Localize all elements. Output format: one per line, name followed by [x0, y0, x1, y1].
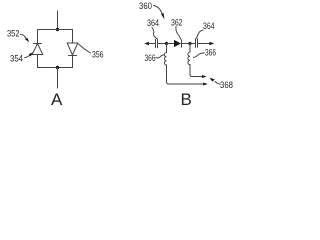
port arrow: figure B right output [209, 42, 214, 45]
port arrow: lower output [203, 83, 208, 86]
label 352 leader arrow [21, 34, 30, 42]
svg-text:352: 352 [7, 28, 20, 39]
wire: figure A top rail [38, 29, 73, 31]
wire: figure A right leg upper [72, 30, 74, 44]
capacitor 364 (left) [156, 39, 158, 47]
port arrow: upper output [202, 75, 207, 78]
label 364 left leader [152, 28, 157, 39]
wire: figure A bottom rail [38, 67, 73, 69]
svg-text:366: 366 [205, 47, 216, 58]
label 356 leader line [79, 44, 91, 53]
label 360 leader arrow [154, 6, 165, 20]
svg-text:366: 366 [145, 52, 156, 63]
label 364 right leader [196, 30, 203, 38]
wire: figure A bottom stub [57, 68, 59, 89]
node: B right junction dot [188, 42, 191, 45]
wire: figure A left leg upper [37, 30, 39, 44]
wire: cap2 to output [198, 43, 211, 45]
node: B left junction dot [165, 42, 168, 45]
port arrow: figure B left input [144, 42, 149, 45]
svg-text:B: B [181, 90, 192, 109]
diode 362 (solid, pointing right) [174, 40, 182, 47]
label 366 left leader [156, 55, 164, 58]
svg-text:364: 364 [203, 20, 215, 31]
wire: right inductor to upper output port [190, 75, 203, 77]
label 366 right leader [193, 53, 204, 58]
wire: B input to cap1 [149, 43, 156, 45]
label 362 leader [176, 27, 181, 40]
inductor 366 (left) [164, 44, 166, 83]
inductor 366 (right) [188, 44, 190, 75]
node: figure A bottom junction dot [56, 66, 59, 69]
wire: cap1 to node [158, 43, 167, 45]
svg-text:360: 360 [139, 0, 152, 11]
wire: figure A top stub [57, 11, 59, 30]
svg-text:364: 364 [147, 17, 159, 28]
diode 356 (right, triangle pointing down, cathode bar at bottom) [67, 43, 78, 56]
node: figure A top junction dot [56, 28, 59, 31]
capacitor 364 (right) [196, 39, 198, 47]
wire: left inductor to lower output port [167, 82, 205, 84]
svg-text:362: 362 [171, 17, 183, 28]
wire: node to cap2 [190, 43, 195, 45]
svg-text:356: 356 [92, 49, 104, 60]
svg-text:A: A [51, 90, 63, 109]
diode 352/354 (left, cathode bar on top, triangle pointing up) [32, 44, 43, 55]
label 368 leader arrow [209, 78, 220, 85]
wire: diode to node [182, 43, 191, 45]
wire: node to diode [167, 43, 175, 45]
wire: figure A right leg lower [72, 56, 74, 68]
label 354 leader arrow [25, 52, 34, 58]
svg-text:368: 368 [220, 79, 233, 90]
wire: figure A left leg lower [37, 55, 39, 68]
svg-text:354: 354 [10, 53, 23, 64]
